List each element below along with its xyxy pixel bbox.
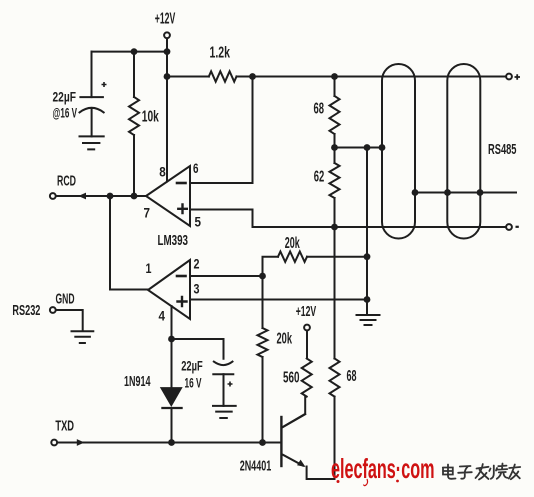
watermark drip 1 [337,480,340,483]
plus sign C1 [102,82,107,87]
watermark char dian [443,465,456,479]
junction node 6 [107,193,114,200]
svg-text:LM393: LM393 [158,233,189,249]
svg-text:2: 2 [194,256,200,272]
wire 1.2k left lead [167,76,209,78]
svg-text:16 V: 16 V [185,375,202,391]
junction node 9 [364,144,371,151]
resistor R3 68 top [330,96,340,134]
junction node 10 [379,144,386,151]
wire cap lead [91,52,93,98]
capacitor C2 22uF 16V plates [214,362,233,366]
resistor R1 1.2k [209,71,237,81]
op-amp U1a LM393 (pins 8,6,7,5) [146,166,190,226]
terminal TXD [51,440,57,446]
minus sign RS485 terminal [516,226,519,228]
svg-text:GND: GND [56,291,75,308]
junction node 3 [164,73,171,80]
junction node 7 [131,193,138,200]
terminal RS485 plus [506,74,512,80]
resistor R8 68 bottom [330,359,340,397]
resistor R7 560 [302,359,312,397]
wire 20k pulldown column [262,276,264,443]
arrow TXD direction [77,439,85,446]
svg-text:1.2k: 1.2k [210,45,231,62]
wire U1b inverting input [190,275,263,277]
svg-text:68: 68 [347,368,357,385]
junction node 15 [477,189,484,196]
svg-text:1N914: 1N914 [124,373,151,390]
svg-text:RS232: RS232 [12,302,40,319]
plus sign RS485 terminal [515,74,521,80]
wire emitter return [307,397,335,479]
svg-text:1: 1 [146,260,152,276]
transistor Q1 2N4401 [280,417,282,466]
junction node 17 [259,273,266,280]
svg-text:8: 8 [159,164,166,180]
ground under C1 [80,136,104,149]
wire U1a noninverting to RS485- line [190,210,506,228]
svg-text:@16 V: @16 V [53,105,78,121]
wire pin4 to cap2 [172,339,224,359]
capacitor C1 22uF plates [80,96,103,98]
svg-text:+12V: +12V [296,303,317,320]
watermark char you [509,465,520,480]
arrow emitter of Q1 [297,460,306,467]
svg-text:2N4401: 2N4401 [240,458,272,475]
resistor R4 62 [330,163,340,198]
junction node 16 [331,224,338,231]
ground G3 mid [357,315,380,325]
arrow RCD direction [78,193,86,200]
junction node 12 [364,296,371,303]
wire 10k top lead [133,52,135,97]
wire +12V stem into pin 8 [166,39,168,182]
terminal +12V top [164,32,170,38]
junction node 20 [259,439,266,446]
svg-text:elecfans·com: elecfans·com [331,453,435,484]
watermark char fa [476,464,489,480]
wire 68 to node row [334,134,336,148]
wire +12V to 560 [306,331,308,359]
wire RCD line [56,195,146,197]
twisted pair loop 1 [382,64,415,239]
wire diode to TXD [171,408,173,443]
wire 20k feedback leads [263,257,368,276]
wire U1b noninverting input [190,299,367,301]
svg-text:RS485: RS485 [488,141,517,158]
svg-text:20k: 20k [285,235,300,252]
wire U1a inverting input feedback [190,77,253,184]
svg-text:22µF: 22µF [53,89,77,105]
svg-text:TXD: TXD [55,418,74,435]
wire 1.2k to RS485+ terminal [237,76,507,78]
watermark char shao [489,464,507,479]
diode D1 1N914 [161,388,182,408]
svg-text:560: 560 [283,370,300,387]
ground under C2 [213,406,236,418]
svg-text:5: 5 [195,214,202,230]
junction node 4 [249,73,256,80]
wire 68b top column [334,227,336,359]
watermark drip 2 [364,479,368,486]
ground G2 RS232 [72,331,94,343]
wire RCD to comparator B output [110,196,148,290]
wire 10k bottom lead [133,135,135,196]
wire 62 leads [334,148,336,228]
junction node 19 [168,439,175,446]
svg-text:22µF: 22µF [181,358,203,374]
wire top rail to cap [92,51,168,53]
svg-text:68: 68 [314,101,325,118]
svg-text:RCD: RCD [57,173,76,190]
svg-text:62: 62 [314,169,325,186]
junction node 1 [131,48,138,55]
terminal RS232 GND [50,307,56,313]
wire TXD line [58,442,282,444]
wire pin4 lead [171,306,173,388]
watermark char zi [458,466,472,479]
junction node 14 [444,189,451,196]
junction node 18 [168,336,175,343]
junction node 11 [364,253,371,260]
terminal RS485 minus [506,224,512,230]
wire node row to loop [335,147,383,149]
terminal RCD [50,193,56,199]
wire bias column [366,148,368,316]
svg-text:4: 4 [159,308,166,324]
resistor R5 20k feedback [278,252,307,262]
terminal +12V lower [304,325,310,331]
junction node 13 [412,189,419,196]
svg-text:6: 6 [193,160,199,176]
svg-text:7: 7 [144,205,151,221]
junction node 8 [331,144,338,151]
svg-text:10k: 10k [142,109,159,126]
resistor R6 20k pulldown [258,328,268,357]
svg-text:3: 3 [194,281,200,297]
wire RS232 gnd [56,310,83,331]
resistor R2 10k [129,97,139,135]
twisted pair loop 2 [447,64,480,239]
op-amp U1b LM393 (pins 1,2,3,4) [148,260,190,319]
plus sign C2 [228,382,233,387]
wire RS485 mid conductor [415,192,516,194]
svg-text:+12V: +12V [155,10,176,27]
watermark drip 3 [396,480,399,483]
junction node 2 [164,48,171,55]
junction node 5 [331,73,338,80]
wire 68 top lead [334,77,336,97]
wire 560 to collector [283,397,305,427]
svg-text:20k: 20k [277,331,293,348]
